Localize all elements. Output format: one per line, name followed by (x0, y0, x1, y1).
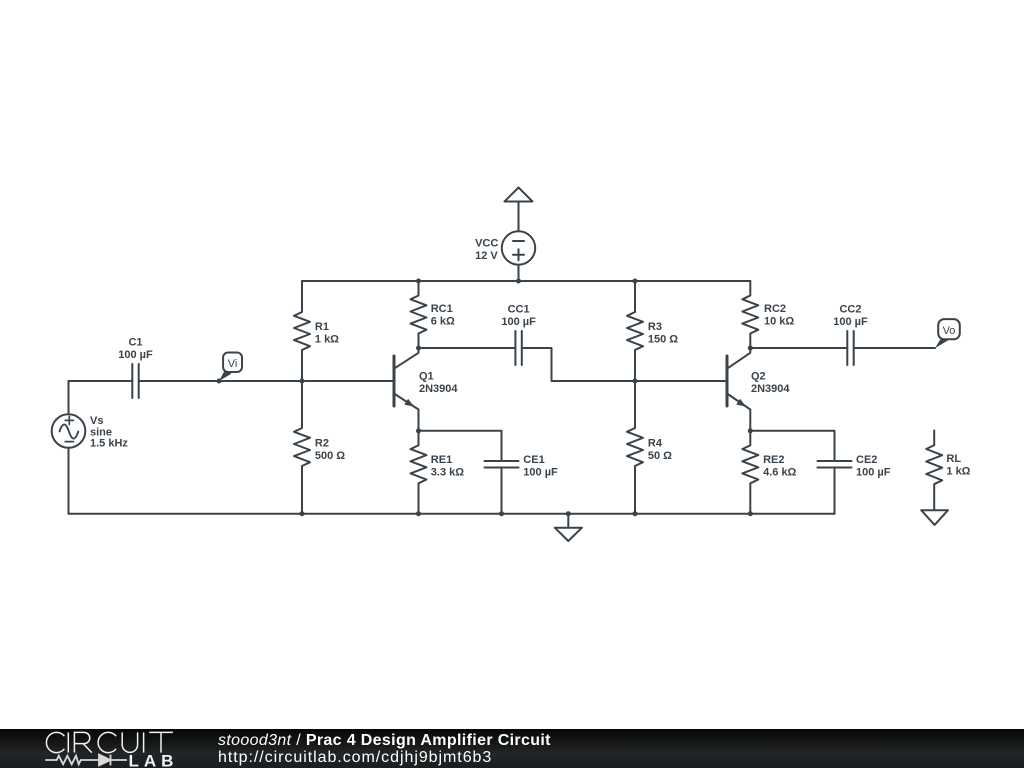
ground for RL (921, 510, 948, 525)
svg-text:100 µF: 100 µF (118, 349, 153, 361)
resistor RE1 (411, 431, 465, 514)
svg-text:1 kΩ: 1 kΩ (946, 466, 970, 478)
svg-text:6 kΩ: 6 kΩ (431, 316, 455, 328)
svg-text:R3: R3 (648, 321, 662, 333)
svg-text:1.5 kHz: 1.5 kHz (90, 438, 128, 450)
svg-text:CE1: CE1 (523, 454, 544, 466)
resistor R1 (294, 281, 339, 381)
svg-text:Vs: Vs (90, 415, 103, 427)
ground symbol (main) (555, 511, 582, 541)
svg-text:CE2: CE2 (856, 454, 877, 466)
svg-text:4.6 kΩ: 4.6 kΩ (763, 466, 796, 478)
svg-text:100 µF: 100 µF (501, 316, 536, 328)
resistor RC1 (411, 281, 455, 348)
junction RC1 top (416, 279, 421, 284)
resistor RE2 (742, 431, 796, 514)
capacitor CE1 (485, 454, 559, 479)
svg-text:Q1: Q1 (419, 371, 434, 383)
resistor R4 (627, 381, 672, 514)
svg-text:100 µF: 100 µF (833, 316, 868, 328)
wire bottom rail (ground net) (69, 513, 835, 515)
wire Q2 collector to CC2 (750, 347, 847, 349)
svg-text:1 kΩ: 1 kΩ (315, 333, 339, 345)
svg-text:100 µF: 100 µF (523, 466, 558, 478)
wire Q1 emitter to CE1 (419, 431, 502, 461)
top rail (VCC net) (302, 280, 750, 282)
svg-text:VCC: VCC (475, 238, 498, 250)
svg-text:LAB: LAB (129, 751, 179, 768)
junction CE1 bottom (499, 511, 504, 516)
svg-text:100 µF: 100 µF (856, 466, 891, 478)
wire CE2 bottom (834, 468, 836, 514)
wire CE1 bottom (501, 468, 503, 514)
CircuitLab logo word CIRCUIT (46, 732, 172, 752)
node junction R1/R2/base (300, 379, 305, 384)
svg-text:500 Ω: 500 Ω (315, 450, 345, 462)
node junction R3/R4/base2 (633, 379, 638, 384)
wire CC1 to stage2 base (522, 348, 726, 381)
wire CC2 to Vo (854, 347, 935, 349)
junction Q2 emitter (748, 428, 753, 433)
svg-text:CC1: CC1 (508, 303, 530, 315)
svg-text:12 V: 12 V (475, 250, 498, 262)
wire Q2 emitter to CE2 (750, 431, 834, 461)
junction Q2 collector (748, 346, 753, 351)
svg-text:2N3904: 2N3904 (751, 383, 790, 395)
voltage source Vs (52, 381, 129, 514)
node flag Vo (935, 319, 960, 348)
node flag Vi (217, 353, 243, 384)
capacitor CC2 (833, 303, 868, 365)
capacitor CC1 (501, 303, 536, 365)
power supply VCC (475, 188, 535, 282)
svg-text:Vo: Vo (943, 325, 956, 337)
transistor Q2 2N3904 (727, 348, 790, 431)
resistor R2 (294, 381, 345, 514)
svg-text:R4: R4 (648, 438, 663, 450)
svg-text:RC1: RC1 (431, 303, 453, 315)
junction VCC to rail (516, 279, 521, 284)
wire Q1 collector to CC1 (419, 347, 516, 349)
resistor RC2 (742, 281, 794, 348)
logo resistor-diode wire (45, 755, 127, 766)
svg-text:Vi: Vi (228, 358, 238, 370)
svg-text:3.3 kΩ: 3.3 kΩ (431, 466, 464, 478)
svg-text:RC2: RC2 (764, 303, 786, 315)
svg-text:RE2: RE2 (763, 454, 784, 466)
junction R4 bottom (633, 511, 638, 516)
resistor RL (926, 431, 970, 511)
svg-text:10 kΩ: 10 kΩ (764, 316, 794, 328)
junction RE1 bottom (416, 511, 421, 516)
svg-text:RE1: RE1 (431, 454, 452, 466)
junction R2 bottom (300, 511, 305, 516)
junction RE2 bottom (748, 511, 753, 516)
resistor R3 (627, 281, 678, 381)
bar url text (218, 749, 492, 767)
capacitor C1 (118, 337, 153, 399)
junction Q1 emitter (416, 428, 421, 433)
svg-text:R1: R1 (315, 321, 329, 333)
junction R3 top (633, 279, 638, 284)
svg-text:CC2: CC2 (839, 303, 861, 315)
capacitor CE2 (818, 454, 891, 479)
wire C1 to Q1 base (139, 380, 393, 382)
svg-text:Q2: Q2 (751, 371, 766, 383)
svg-text:150 Ω: 150 Ω (648, 333, 678, 345)
junction Q1 collector (416, 346, 421, 351)
svg-text:RL: RL (946, 453, 961, 465)
wire input: Vs to C1 (69, 380, 133, 382)
svg-text:2N3904: 2N3904 (419, 383, 458, 395)
bottom attribution bar (0, 729, 1024, 768)
svg-text:50 Ω: 50 Ω (648, 450, 672, 462)
svg-text:R2: R2 (315, 438, 329, 450)
svg-text:C1: C1 (128, 337, 142, 349)
bar title text (218, 732, 551, 750)
transistor Q1 2N3904 (394, 348, 458, 431)
